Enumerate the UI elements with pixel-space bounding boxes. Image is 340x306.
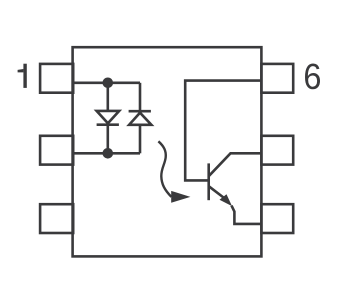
diode D1 triangle [97, 111, 120, 123]
light arrow squiggle [158, 141, 171, 197]
package body U1 [73, 47, 262, 256]
pin 2 lead [40, 136, 73, 165]
wire: left branch cathode [107, 125, 110, 154]
diode D2 triangle [129, 113, 151, 125]
wire: base region box to pin 6 [185, 81, 261, 181]
junction dot bottom [103, 148, 114, 159]
pin 4 lead [261, 204, 293, 233]
pin 3 lead [40, 204, 73, 233]
wire: left branch anode [107, 83, 110, 111]
transistor Q1 base bar [207, 163, 210, 200]
svg-text:6: 6 [303, 57, 321, 97]
junction dot top [103, 78, 114, 89]
pin 1 label stem [23, 64, 26, 88]
wire: right branch bottom [139, 125, 142, 154]
transistor Q1 collector wire to pin 5 [209, 153, 262, 176]
diode D1 cathode bar [97, 123, 119, 126]
pin 6 lead [261, 64, 293, 93]
wire: pin1 top rail [73, 82, 140, 85]
pin 1 label flag [18, 69, 24, 72]
diode D2 cathode bar [129, 110, 151, 113]
pin 5 lead [261, 136, 293, 165]
wire: right branch top [139, 83, 142, 111]
wire: pin2 bottom rail [73, 152, 140, 155]
transistor Q1 emitter arrowhead [220, 194, 233, 206]
transistor Q1 emitter wire to pin 4 [209, 186, 262, 224]
light arrow head [171, 191, 190, 203]
pin 1 lead [40, 64, 73, 93]
